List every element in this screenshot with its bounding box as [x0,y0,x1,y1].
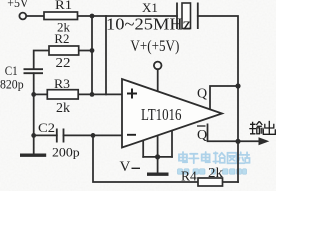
resistor R3 [47,90,78,99]
crystal X1 [177,3,198,30]
svg-text:R2: R2 [54,31,69,46]
Q output stub [210,86,238,109]
R2 right wire [79,50,92,52]
svg-text:X1: X1 [142,0,158,15]
+5V terminal [19,13,26,20]
svg-text:R4: R4 [181,169,197,184]
svg-text:R1: R1 [55,0,72,12]
svg-text:2k: 2k [208,166,223,181]
+ input symbol [127,89,137,99]
op-amp / comparator U1 LT1016 triangle [122,79,222,148]
Q-bar output stub to arrow [208,124,261,141]
svg-text:V: V [120,159,131,175]
svg-text:V+(+5V): V+(+5V) [130,38,179,55]
ground (under LT1016) [147,173,169,176]
left rail below C1 to ground [33,73,35,153]
watermark line 1: 电子电路图站 (light blue) [179,152,249,163]
svg-text:820p: 820p [0,77,24,92]
wire R1 to crystal X1 [78,15,178,17]
R3 left wire [34,93,48,95]
路 [213,152,218,163]
junction ground rail at R3 left [31,92,36,97]
watermark line 2: small blue marks [178,169,247,174]
svg-text:Q: Q [197,86,207,101]
junction node C (- input) at C2 right [91,133,96,138]
capacitor C1 plates [24,69,44,73]
R4 right wire [223,181,239,183]
- input symbol [127,134,136,136]
junction node B at R3 right (+ input) [90,92,95,97]
svg-text:C2: C2 [38,120,55,135]
ground (left, under C2 node) [20,154,46,157]
子 [189,154,198,163]
junction output line to rail [235,139,240,144]
C2 right wire / - input wire [64,134,123,136]
ground stub under LT1016 [157,157,159,173]
junction ground rail at C2 left [31,133,36,138]
wire crystal to right rail, down to R4 [198,16,238,182]
V+ stub [157,69,159,91]
图 [228,153,237,164]
输 [249,122,256,134]
capacitor C2 plates [57,129,64,143]
junction node B at R2 right [90,48,95,53]
vertical wire node B to + input [105,16,107,94]
svg-text:Q: Q [197,128,207,143]
wire - node down and right to R4 [93,135,198,182]
svg-text:22: 22 [56,55,71,70]
label 输出 (output) drawn glyphs [249,121,275,135]
svg-text:200p: 200p [52,145,80,160]
svg-text:LT1016: LT1016 [141,105,182,124]
resistor R4 [198,178,223,186]
right resistor rail [91,16,93,94]
junction at LT1016 ground pins [155,154,160,159]
出 [268,121,270,135]
svg-text:+5V: +5V [7,0,29,10]
LT1016 bottom pins [143,131,172,157]
R3 right wire / + input wire [78,93,122,95]
电 [179,154,187,160]
junction Q output to crystal rail [235,83,240,88]
C2 left wire [34,134,57,136]
svg-text:R3: R3 [54,76,70,91]
电 [202,154,210,160]
站 [238,152,245,163]
svg-text:2k: 2k [56,100,70,115]
resistor R1 [44,12,78,20]
resistor R2 [49,46,79,55]
wire terminal to R1 [26,15,44,17]
V+ terminal circle [154,62,162,70]
svg-text:10~25MHz: 10~25MHz [106,15,191,34]
output arrow [259,137,270,145]
junction node B at R1 right [90,14,95,19]
R2 left wire + left rail top [34,51,49,70]
